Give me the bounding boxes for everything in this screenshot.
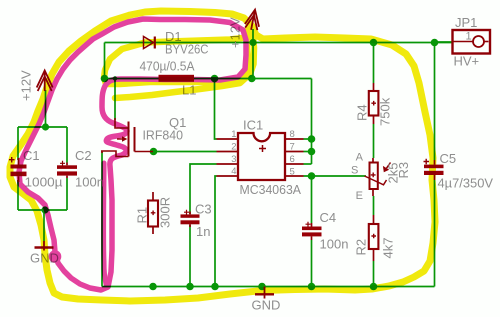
pin numbers IC right — [290, 129, 295, 178]
IC pins right stubs — [285, 139, 304, 176]
svg-text:4k7: 4k7 — [381, 238, 396, 259]
svg-text:GND: GND — [252, 298, 281, 313]
wire HV right column top — [434, 43, 436, 161]
wire JP1 feeder — [435, 41, 454, 43]
wire C1 C2 bottom rail — [18, 209, 67, 211]
svg-text:5: 5 — [290, 167, 295, 178]
potentiometer R3 — [365, 158, 391, 196]
node R4 top — [370, 39, 378, 47]
svg-text:+12V: +12V — [19, 70, 34, 101]
svg-text:300R: 300R — [158, 197, 173, 228]
node pin1 riser — [211, 75, 219, 83]
wire C1 branch — [17, 127, 19, 210]
svg-text:1: 1 — [466, 31, 472, 43]
node +12V/C1C2 top — [42, 123, 49, 130]
svg-text:R1: R1 — [135, 207, 150, 224]
wire R4 top feeder — [373, 43, 375, 84]
supply arrow +12 top — [244, 8, 262, 31]
node JP1/C5 — [431, 39, 439, 47]
svg-text:1000µ: 1000µ — [25, 175, 64, 190]
diode D1 — [144, 37, 155, 49]
wire C2 branch — [66, 127, 68, 210]
svg-text:8: 8 — [290, 129, 295, 140]
inductor L1 — [159, 75, 195, 82]
svg-text:R3: R3 — [396, 162, 411, 179]
wire L1 row — [105, 78, 312, 80]
svg-text:4µ7/350V: 4µ7/350V — [438, 176, 494, 191]
wire C5 bottom to rail — [434, 180, 436, 287]
wire pin8 column vertical — [311, 79, 313, 165]
wire C4 bottom to rail — [311, 240, 313, 287]
svg-text:100n: 100n — [320, 237, 349, 252]
svg-text:2: 2 — [231, 142, 236, 153]
IC op U1 body MC34063A — [238, 133, 285, 180]
node rail GND — [258, 283, 266, 291]
wire drain stub (hidden) — [114, 79, 116, 121]
pot terminal letters — [351, 152, 364, 203]
wire GND stub left — [43, 210, 45, 241]
wire C3 bottom to rail — [189, 225, 191, 287]
node drain (hidden) — [113, 76, 117, 80]
wire pin3 to C3 — [190, 164, 217, 214]
svg-text:JP1: JP1 — [455, 15, 477, 30]
svg-text:C3: C3 — [195, 202, 212, 217]
node pin8 — [308, 135, 316, 143]
svg-text:R2: R2 — [354, 239, 369, 256]
svg-text:6: 6 — [290, 154, 295, 165]
svg-text:IRF840: IRF840 — [143, 128, 184, 143]
svg-text:7: 7 — [290, 142, 295, 153]
wires layer — [18, 29, 453, 287]
capacitor C5 — [424, 159, 444, 180]
highlighter layer — [10, 11, 435, 301]
IC pins left stubs — [217, 139, 239, 176]
capacitor C1 — [9, 157, 27, 182]
node rail C3 — [186, 283, 194, 291]
wire pin6 jog — [304, 163, 312, 165]
node rail R1 — [149, 283, 157, 291]
node +12 riser — [248, 75, 256, 83]
wire pin7 jog — [304, 151, 312, 153]
highlight yellow inner loop — [104, 25, 258, 98]
wire pot E to R2 — [373, 196, 375, 215]
node pin7 — [308, 148, 316, 156]
transistor Q1 — [101, 118, 153, 157]
capacitor C2 — [57, 161, 77, 178]
svg-text:HV+: HV+ — [454, 54, 480, 69]
svg-text:R4: R4 — [355, 104, 370, 121]
svg-text:100n: 100n — [75, 175, 104, 190]
wire pin1 from L1 row — [215, 79, 217, 140]
pin numbers IC left — [231, 129, 236, 177]
svg-text:S: S — [351, 165, 358, 177]
svg-text:750k: 750k — [378, 97, 393, 126]
wire pin8 jog — [304, 138, 312, 140]
svg-text:1n: 1n — [196, 224, 210, 239]
svg-text:C4: C4 — [320, 210, 337, 225]
node pin5 — [308, 172, 316, 180]
wire +12V left arrow feeder — [45, 90, 47, 127]
svg-text:E: E — [356, 190, 363, 202]
resistor R2 — [369, 215, 379, 261]
supply arrow +12V left — [37, 71, 53, 92]
capacitor C3 — [181, 210, 200, 227]
svg-text:1: 1 — [231, 129, 236, 140]
svg-text:470µ/0.5A: 470µ/0.5A — [140, 59, 195, 74]
node gate/R1 — [150, 148, 158, 156]
node rail R2 — [370, 283, 378, 291]
ground symbol left — [35, 241, 54, 251]
highlight yellow outer ring — [10, 11, 435, 301]
node diode/+12 cross — [249, 39, 256, 46]
resistor R1 — [148, 192, 158, 234]
wire top rail (diode row +12 to JP1) — [105, 42, 454, 44]
svg-text:IC1: IC1 — [243, 118, 263, 133]
svg-text:4: 4 — [231, 166, 236, 177]
svg-text:C5: C5 — [440, 151, 457, 166]
node rail C4 — [308, 283, 316, 291]
wire +12 top arrow feeder — [252, 29, 254, 79]
wire pin2 to gate junction — [153, 151, 217, 153]
node C1C2 bottom — [41, 206, 48, 213]
wire C1 C2 top rail — [18, 126, 67, 128]
highlight magenta blob GND — [49, 250, 62, 263]
wire R4 to pot A — [373, 124, 375, 158]
node rail pin4 — [211, 283, 219, 291]
highlight magenta loop — [19, 19, 246, 290]
wire C4 branch top — [311, 176, 313, 223]
wire pin5 to pot S — [304, 175, 367, 177]
capacitor C4 — [302, 222, 322, 240]
node L1 left — [101, 75, 109, 83]
wire pin4 down to rail — [215, 176, 217, 287]
svg-text:C2: C2 — [75, 148, 92, 163]
svg-text:3: 3 — [231, 154, 236, 165]
wire bottom ground rail — [102, 286, 435, 288]
connector JP1 — [453, 30, 491, 54]
wire R2 bottom to rail — [373, 261, 375, 287]
wire left vertical diode row to L1 row — [104, 43, 106, 79]
ground symbol bottom — [255, 287, 274, 299]
svg-text:MC34063A: MC34063A — [240, 182, 302, 197]
resistor R4 — [369, 83, 379, 124]
wire source column left — [101, 152, 103, 287]
svg-text:A: A — [356, 152, 364, 164]
highlight magenta down strand — [104, 163, 106, 284]
